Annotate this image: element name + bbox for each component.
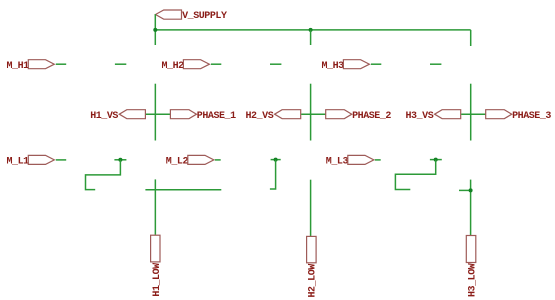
hierarchical label M_H1 — [7, 60, 55, 72]
wire stub at M_H1 — [56, 63, 66, 65]
junction phase1 gate — [118, 158, 122, 162]
wire horizontal phase1 low crossing — [145, 189, 221, 191]
junction at rail x=155 — [153, 28, 157, 32]
hierarchical label V_SUPPLY — [156, 10, 227, 22]
wire step phase3 — [395, 160, 435, 190]
wire vertical phase1 low-side — [154, 179, 156, 234]
wire tick phase3 low — [459, 189, 471, 191]
svg-text:PHASE_1: PHASE_1 — [197, 111, 236, 122]
wire stub at M_L3 — [375, 159, 381, 161]
svg-text:H2_LOW: H2_LOW — [308, 264, 319, 298]
wire vertical phase1 half-bridge — [154, 84, 156, 141]
wire H2_VS to PHASE_2 — [301, 113, 326, 115]
hierarchical label M_H3 — [322, 60, 370, 72]
hierarchical label H3_LOW — [466, 236, 478, 298]
wire gate tick phase1 — [114, 159, 126, 161]
svg-text:PHASE_3: PHASE_3 — [512, 111, 551, 122]
svg-text:H2_VS: H2_VS — [246, 111, 274, 122]
hierarchical label PHASE_1 — [170, 110, 236, 122]
wire dash phase3 top (transistor stub) — [430, 63, 441, 65]
svg-text:M_H2: M_H2 — [162, 61, 185, 72]
svg-text:M_L3: M_L3 — [326, 157, 349, 168]
wire H3_VS to PHASE_3 — [461, 113, 486, 115]
hierarchical label PHASE_3 — [486, 110, 552, 122]
wire stub at M_L2 — [215, 159, 221, 161]
hierarchical label M_L2 — [166, 155, 214, 167]
hierarchical label M_L1 — [7, 155, 55, 167]
wire dash phase1 top (transistor stub) — [115, 63, 126, 65]
svg-text:H3_LOW: H3_LOW — [467, 263, 478, 297]
junction at rail x=310 — [309, 28, 313, 32]
wire stub below rail phase 3 (corner) — [470, 30, 472, 46]
hierarchical label PHASE_2 — [326, 110, 392, 122]
wire dash phase2 top (transistor stub) — [270, 63, 281, 65]
svg-text:V_SUPPLY: V_SUPPLY — [182, 11, 227, 22]
svg-text:M_L2: M_L2 — [166, 157, 189, 168]
wire stub at M_H3 — [371, 63, 381, 65]
hierarchical label H3_VS — [406, 110, 461, 122]
svg-text:M_L1: M_L1 — [7, 157, 30, 168]
svg-text:M_H3: M_H3 — [322, 61, 345, 72]
svg-text:H1_LOW: H1_LOW — [152, 263, 163, 297]
svg-text:H3_VS: H3_VS — [406, 111, 434, 122]
hierarchical label M_L3 — [326, 155, 374, 167]
svg-text:M_H1: M_H1 — [7, 61, 30, 72]
wire stub at M_L1 — [56, 159, 66, 161]
wire vertical phase2 half-bridge — [310, 84, 312, 141]
svg-text:H1_VS: H1_VS — [90, 111, 118, 122]
wire step phase1 — [86, 160, 121, 190]
wire H1_VS to PHASE_1 — [146, 113, 171, 115]
wire vertical phase3 low-side — [470, 180, 472, 236]
wire from V_SUPPLY to rail — [154, 14, 156, 45]
junction phase2 gate — [274, 158, 278, 162]
hierarchical label H1_VS — [90, 110, 145, 122]
wire gate tick phase3 — [430, 159, 442, 161]
junction phase3 low — [469, 188, 473, 192]
wire V supply top rail — [155, 29, 470, 31]
hierarchical label H2_VS — [246, 110, 301, 122]
hierarchical label M_H2 — [162, 60, 210, 72]
wire gate tick phase2 — [271, 159, 281, 161]
hierarchical label H2_LOW — [307, 236, 319, 297]
svg-text:PHASE_2: PHASE_2 — [352, 111, 391, 122]
wire stub phase2 gate down — [270, 160, 276, 189]
wire stub at M_H2 — [211, 63, 221, 65]
wire vertical phase2 low-side — [310, 180, 312, 237]
wire vertical phase3 half-bridge — [470, 84, 472, 141]
wire stub below rail phase 2 — [310, 30, 312, 45]
junction phase3 gate — [434, 158, 438, 162]
hierarchical label H1_LOW — [151, 235, 163, 296]
